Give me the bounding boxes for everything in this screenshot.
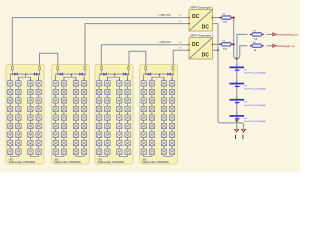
wire converter2 output minus to bus bbox=[213, 49, 218, 51]
wire bus v1 down to junction bbox=[234, 18, 237, 59]
fuse F2 bbox=[219, 42, 233, 46]
junction dot fuse1/bus bbox=[233, 17, 235, 19]
svg-text:Hausverteilung (+): Hausverteilung (+) bbox=[276, 33, 298, 37]
wire branch to fuse F4 bbox=[237, 46, 248, 59]
terminal arrow Hausverteilung bbox=[273, 33, 276, 36]
wire fuse F1 to bus v1 bbox=[231, 17, 234, 19]
svg-text:+ 48V DC: + 48V DC bbox=[158, 40, 172, 44]
wire battery minus to ground arrow left bbox=[236, 121, 238, 130]
battery cell G2 bbox=[230, 80, 245, 87]
fuse F4 bbox=[250, 44, 264, 48]
wire fuse F3 to arrow bbox=[266, 33, 272, 35]
svg-text:MPPT-Solarregler 2: MPPT-Solarregler 2 bbox=[191, 34, 214, 38]
wire bridge U03-U04 bbox=[129, 51, 146, 64]
wire string A + : panel U01 to converter U11 input 1 bbox=[12, 18, 189, 65]
svg-text:MPPT-Solarregler 1: MPPT-Solarregler 1 bbox=[191, 6, 214, 10]
wire converter2 output to fuse F2 bbox=[213, 43, 222, 45]
ground arrow right bbox=[241, 129, 246, 132]
svg-text:LiFePO4 (3,2V/100Ah): LiFePO4 (3,2V/100Ah) bbox=[244, 104, 266, 107]
fuse F3 bbox=[250, 33, 264, 37]
svg-text:80A: 80A bbox=[223, 47, 227, 50]
junction dot fuse2/bus bbox=[233, 43, 235, 45]
battery cell G3 bbox=[230, 96, 245, 103]
svg-text:+ 48V DC: + 48V DC bbox=[158, 13, 172, 17]
svg-text:LiFePO4 (3,2V/100Ah): LiFePO4 (3,2V/100Ah) bbox=[244, 72, 266, 75]
solar module U03 bbox=[95, 65, 133, 165]
battery cell G1 bbox=[230, 64, 245, 71]
junction dot minus bus bbox=[217, 49, 219, 51]
ground arrow left bbox=[234, 129, 239, 132]
wire battery minus to ground arrow right bbox=[237, 121, 244, 130]
pin dots converter U11 bbox=[189, 17, 190, 18]
wire fuse F4 to arrow bbox=[266, 45, 272, 47]
wire converter1 output to fuse F1 bbox=[213, 17, 222, 19]
junction dot bus/battery bbox=[236, 57, 238, 59]
wire converter1 output minus to bus bbox=[213, 23, 219, 25]
svg-text:LiFePO4 (3,2V/100Ah): LiFePO4 (3,2V/100Ah) bbox=[244, 120, 266, 123]
wire fuse F2 to bus v1 bbox=[231, 43, 234, 45]
solar module U02 bbox=[52, 65, 90, 165]
fuse F1 bbox=[219, 16, 233, 20]
svg-text:80A: 80A bbox=[254, 38, 258, 41]
solar module U01 bbox=[6, 65, 44, 165]
wire string B - : panel U04 to converter U12 input 2 bbox=[173, 50, 189, 64]
solar module U04 bbox=[140, 65, 178, 165]
junction dot battery minus bbox=[236, 120, 238, 122]
wire string A - : panel U02 to converter U11 input 2 bbox=[85, 24, 189, 65]
battery cell G4 bbox=[230, 112, 245, 119]
svg-text:Datenlogger (+): Datenlogger (+) bbox=[276, 44, 295, 48]
wire string B + : panel U03 to converter U12 input 1 bbox=[101, 45, 189, 65]
wire battery string down bbox=[235, 59, 237, 121]
wire bridge U01-U02 bbox=[40, 53, 58, 64]
svg-text:80A: 80A bbox=[223, 21, 227, 24]
svg-text:LiFePO4 (3,2V/100Ah): LiFePO4 (3,2V/100Ah) bbox=[244, 88, 266, 91]
pin dots converter U12 bbox=[189, 44, 190, 45]
wire minus bus down to battery bottom bbox=[218, 24, 237, 123]
wire branch to fuse F3 bbox=[236, 34, 247, 58]
terminal arrow Datenlogger bbox=[273, 44, 276, 47]
